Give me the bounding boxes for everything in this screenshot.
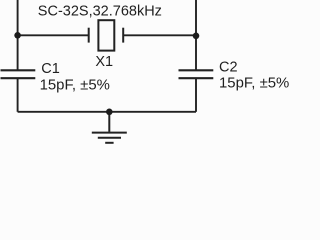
svg-text:15pF, ±5%: 15pF, ±5% xyxy=(40,78,110,94)
svg-text:C1: C1 xyxy=(41,61,60,77)
node junction right xyxy=(193,33,200,40)
svg-text:SC-32S,32.768kHz: SC-32S,32.768kHz xyxy=(38,3,162,19)
capacitor C2 xyxy=(179,70,214,78)
crystal X1 xyxy=(89,20,124,50)
node junction ground xyxy=(106,109,113,116)
wire top horizontal right segment xyxy=(124,34,197,36)
svg-text:15pF, ±5%: 15pF, ±5% xyxy=(219,75,289,91)
capacitor C1 xyxy=(1,70,36,78)
wire bottom horizontal xyxy=(18,111,196,113)
wire top horizontal left segment xyxy=(18,34,88,36)
svg-text:C2: C2 xyxy=(219,60,238,76)
wire left rail vertical xyxy=(17,0,19,70)
svg-text:X1: X1 xyxy=(95,54,113,70)
node junction left xyxy=(14,32,21,39)
wire C1 bottom lead xyxy=(17,79,19,112)
wire right rail vertical xyxy=(195,0,197,70)
wire C2 bottom lead xyxy=(195,79,197,112)
ground xyxy=(92,112,127,143)
